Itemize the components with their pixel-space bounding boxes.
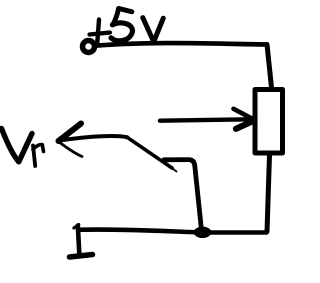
wire from junction up to wiper node bbox=[164, 160, 202, 230]
lead from R1 bottom bbox=[267, 155, 270, 232]
ground stub wire bbox=[78, 226, 80, 254]
potentiometer R1 body bbox=[255, 90, 283, 154]
label Vr subscript r bbox=[33, 145, 44, 166]
label +5 V plus sign bbox=[90, 20, 111, 43]
ground top tick bbox=[74, 225, 79, 229]
terminal +5V supply bbox=[83, 41, 95, 53]
label +5 V digit 5 bbox=[111, 8, 132, 40]
annotation arrow pointing to Vr node bbox=[59, 124, 177, 172]
label +5 V letter V bbox=[143, 18, 164, 42]
bottom wire from ground to R1 lead bbox=[79, 230, 267, 233]
junction dot bbox=[194, 227, 212, 238]
label Vr letter V bbox=[2, 129, 33, 162]
wire from +5V terminal to right bbox=[95, 43, 267, 46]
wire drop from top wire into R1 top bbox=[267, 45, 272, 88]
ground bar bbox=[70, 255, 93, 258]
wiper arrow of R1 bbox=[160, 109, 255, 129]
